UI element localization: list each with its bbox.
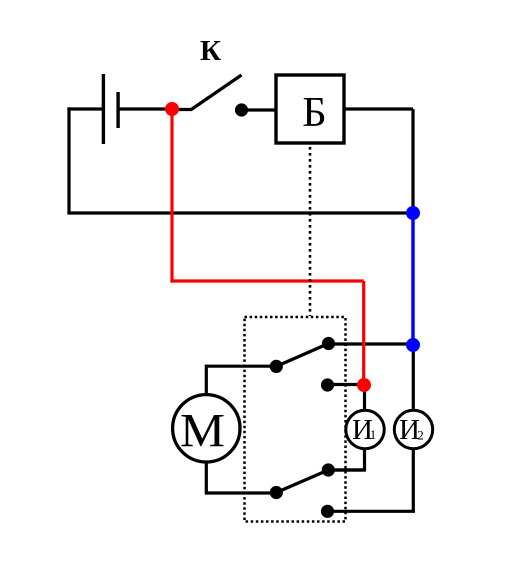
svg-text:Б: Б [302,89,326,136]
svg-text:1: 1 [370,427,377,442]
svg-text:2: 2 [417,428,424,443]
svg-text:К: К [200,35,221,67]
svg-text:М: М [180,405,225,458]
